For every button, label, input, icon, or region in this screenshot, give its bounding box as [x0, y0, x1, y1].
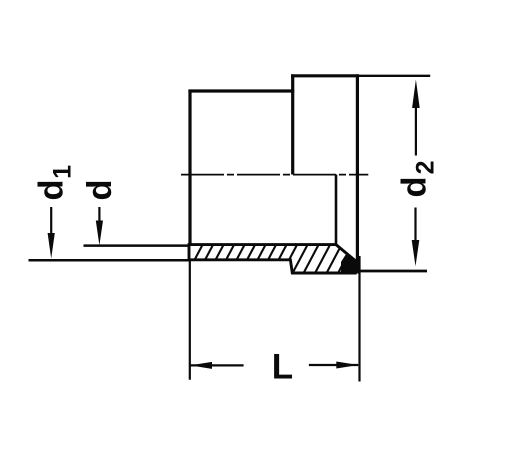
wire: L left extension line: [189, 261, 191, 380]
wire: d leader line: [98, 207, 100, 226]
wire: d2 top extension line: [359, 75, 430, 77]
wire: L right arrow: [336, 362, 358, 369]
wire: d2 lower dimension line: [414, 208, 416, 243]
wire: section hatching: [186, 242, 366, 276]
wire: collar left edge: [291, 74, 294, 174]
wire: d1 arrow: [48, 233, 55, 259]
wire: L left arrow: [190, 362, 212, 369]
wire: collar top edge: [291, 74, 359, 77]
node: corner fill bottom-right: [341, 253, 357, 275]
svg-text:d: d: [81, 179, 119, 200]
wire: d1 extension line: [29, 259, 191, 262]
svg-text:L: L: [272, 347, 293, 386]
wire: collar right edge: [356, 74, 359, 273]
wire: d2 up arrow: [412, 80, 420, 109]
wire: L right extension line: [358, 256, 360, 382]
wire: body top edge: [188, 89, 294, 92]
wire: d2 upper dimension line: [415, 104, 417, 156]
wire: d2 bottom extension line: [357, 270, 427, 273]
wire: body left edge: [188, 90, 191, 261]
wire: d extension line: [84, 244, 191, 247]
wire: d1 leader line: [50, 207, 52, 240]
wire: L right dimension line: [309, 364, 358, 366]
wire: d2 down arrow: [412, 240, 420, 266]
wire: d arrow: [96, 221, 103, 246]
node: centerline axis: [181, 174, 368, 176]
wire: socket bore edge: [335, 175, 338, 247]
wire: L left dimension line: [190, 364, 244, 366]
wire: section wall outline: [189, 245, 355, 273]
